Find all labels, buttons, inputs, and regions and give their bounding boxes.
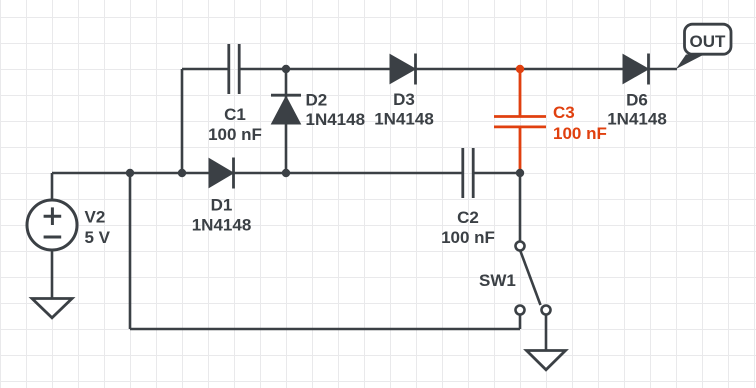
svg-text:D6: D6 xyxy=(626,91,648,110)
svg-text:C1: C1 xyxy=(224,105,246,124)
svg-text:1N4148: 1N4148 xyxy=(607,110,667,129)
svg-text:D3: D3 xyxy=(393,90,415,109)
svg-text:1N4148: 1N4148 xyxy=(192,216,252,235)
svg-text:C2: C2 xyxy=(457,208,479,227)
svg-text:1N4148: 1N4148 xyxy=(374,110,434,129)
svg-text:100 nF: 100 nF xyxy=(553,124,607,143)
svg-text:V2: V2 xyxy=(85,208,106,227)
svg-text:100 nF: 100 nF xyxy=(441,228,495,247)
svg-text:D2: D2 xyxy=(306,91,328,110)
svg-text:1N4148: 1N4148 xyxy=(306,110,366,129)
svg-text:D1: D1 xyxy=(211,196,233,215)
svg-text:100 nF: 100 nF xyxy=(208,125,262,144)
svg-text:C3: C3 xyxy=(553,103,575,122)
svg-text:OUT: OUT xyxy=(690,32,727,51)
svg-text:SW1: SW1 xyxy=(479,271,516,290)
svg-text:5 V: 5 V xyxy=(85,228,111,247)
